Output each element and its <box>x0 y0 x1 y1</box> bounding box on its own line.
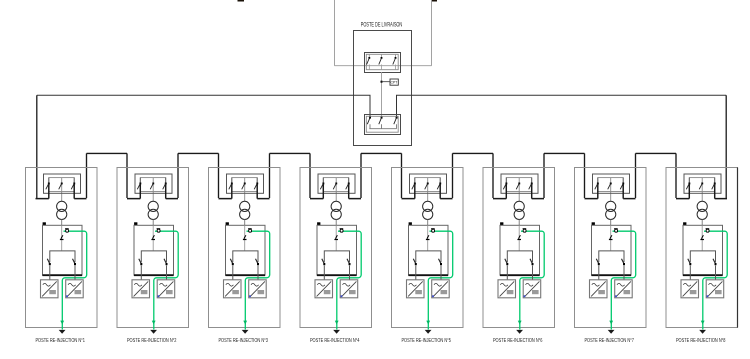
svg-text:POSTE RE-INJECTION N°5: POSTE RE-INJECTION N°5 <box>401 338 451 344</box>
svg-text:POSTE RE-INJECTION N°6: POSTE RE-INJECTION N°6 <box>493 338 543 344</box>
svg-text:POSTE RE-INJECTION N°4: POSTE RE-INJECTION N°4 <box>310 338 360 344</box>
svg-text:POSTE RE-INJECTION N°8: POSTE RE-INJECTION N°8 <box>676 338 726 344</box>
svg-text:POSTE RE-INJECTION N°7: POSTE RE-INJECTION N°7 <box>584 338 634 344</box>
svg-text:POSTE RE-INJECTION N°1: POSTE RE-INJECTION N°1 <box>35 338 85 344</box>
svg-text:CPT: CPT <box>391 80 399 84</box>
svg-text:POSTE RE-INJECTION N°2: POSTE RE-INJECTION N°2 <box>127 338 177 344</box>
svg-text:POSTE RE-INJECTION N°3: POSTE RE-INJECTION N°3 <box>218 338 268 344</box>
svg-text:POSTE DE LIVRAISON: POSTE DE LIVRAISON <box>361 23 403 29</box>
